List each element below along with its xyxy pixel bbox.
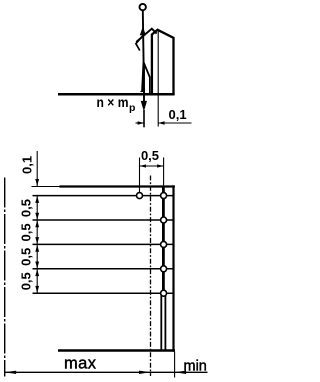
dim 0,5 top: left extension — [139, 158, 141, 193]
ground line top figure — [58, 93, 175, 96]
max left arrowhead — [5, 371, 17, 374]
shelf 4 — [33, 268, 174, 270]
dim 0,1 top: left arrowhead — [138, 121, 144, 124]
chain span 3 — [36, 244, 38, 268]
svg-text:p: p — [129, 102, 135, 114]
shelf 3 — [33, 243, 174, 245]
person right shin — [149, 77, 151, 94]
hinge circle 1 — [161, 193, 167, 199]
door panel outline — [152, 30, 174, 95]
open circle shelf1 — [137, 193, 143, 199]
wall bottom extension — [174, 352, 176, 378]
chain span 4 — [36, 269, 38, 293]
dim 0,5 top: left arrowhead — [140, 164, 147, 167]
left chain: arrow down to top line — [35, 179, 39, 186]
hinge circle 2 — [161, 217, 167, 223]
svg-text:min: min — [184, 358, 207, 374]
left chain: 0,1 outside arrow shaft — [36, 151, 38, 187]
dim 0,1 top: dimension line right shaft — [158, 122, 191, 124]
svg-text:0,5: 0,5 — [141, 148, 159, 163]
svg-text:max: max — [64, 355, 97, 373]
cabinet top line — [60, 185, 175, 187]
shelf 5 — [33, 292, 174, 294]
bottom dimension line — [5, 371, 208, 373]
chain span 2 — [36, 220, 38, 244]
person torso — [142, 11, 145, 63]
person right thigh — [144, 63, 150, 78]
svg-text:0,5: 0,5 — [19, 272, 34, 290]
left axis dash-dot — [4, 178, 6, 377]
door panel front edge line + lower extension — [157, 32, 159, 127]
svg-text:0,5: 0,5 — [19, 248, 34, 266]
dim 0,1 top: right arrowhead — [158, 121, 164, 124]
person left forearm — [136, 33, 145, 50]
hinge circle 4 — [161, 266, 167, 272]
svg-text:0,5: 0,5 — [19, 199, 34, 217]
dim 0,1 top: dimension line left shaft — [136, 122, 144, 124]
shelf 2 — [33, 219, 174, 221]
svg-text:0,5: 0,5 — [19, 223, 34, 241]
force line (shaft + extension through dim line) — [143, 64, 145, 102]
dim 0,5 top: right extension — [163, 158, 165, 186]
person right arm over door — [136, 29, 157, 42]
cabinet bottom line — [58, 349, 175, 351]
door edge pair lower — [160, 293, 162, 350]
svg-text:n × m: n × m — [97, 94, 129, 110]
svg-text:0,1: 0,1 — [169, 107, 187, 122]
top line left extension — [32, 186, 60, 188]
centerline dash-dot — [150, 176, 152, 377]
dim 0,5 top: dimension line — [140, 165, 164, 167]
person left foot — [140, 88, 145, 92]
shelf 1 — [33, 195, 174, 197]
min left arrowhead — [175, 371, 187, 374]
hinge circle 3 — [161, 241, 167, 247]
person head — [140, 4, 146, 10]
max right arrowhead — [139, 371, 151, 374]
door axis line upper — [162, 187, 165, 294]
chain span 1 — [36, 196, 38, 220]
hinge circle 5 — [161, 290, 167, 296]
dim 0,5 top: right arrowhead — [157, 164, 164, 167]
force arrow head — [141, 101, 147, 112]
person shoulder arms triangle — [140, 27, 146, 36]
svg-text:0,1: 0,1 — [20, 156, 35, 174]
person left leg — [142, 63, 143, 92]
right wall — [172, 185, 174, 351]
